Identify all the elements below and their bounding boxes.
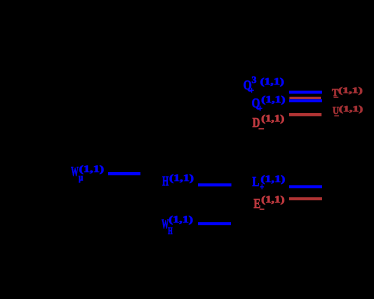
svg-text:(1,1): (1,1) (260, 76, 284, 86)
node Q+3(1,1) label (243, 75, 284, 95)
level line T- (red) (289, 97, 321, 99)
node E-(1,1) label (254, 194, 285, 213)
svg-text:(1,1): (1,1) (79, 164, 104, 174)
svg-text:(1,1): (1,1) (338, 86, 363, 95)
node WH(1,1) label (162, 215, 193, 237)
svg-text:+: + (258, 104, 263, 114)
level line Q+3 (blue) (289, 91, 322, 94)
node T-(1,1) label (332, 86, 363, 101)
svg-text:(1,1): (1,1) (339, 104, 363, 113)
svg-text:(1,1): (1,1) (261, 194, 284, 204)
node H(1,1) label (162, 173, 193, 190)
svg-text:+: + (249, 86, 254, 96)
level line E- (red) (289, 197, 322, 200)
svg-text:–: – (259, 204, 264, 214)
svg-text:(1,1): (1,1) (261, 114, 284, 124)
level line H (blue) (198, 183, 231, 186)
svg-text:H: H (168, 226, 173, 236)
node D-(1,1) label (252, 114, 284, 133)
svg-text:(1,1): (1,1) (169, 173, 193, 183)
svg-text:W: W (71, 165, 79, 180)
level line L+ (blue) (289, 185, 322, 188)
level line D-/U- (red) (289, 113, 322, 116)
svg-text:–: – (258, 123, 264, 133)
svg-text:L: L (252, 175, 259, 190)
level line Wmu (blue) (108, 172, 140, 175)
level line Q+ (blue) (289, 99, 322, 102)
svg-text:(1,1): (1,1) (261, 95, 285, 105)
level line WH (blue) (198, 222, 231, 225)
svg-text:3: 3 (252, 75, 257, 85)
node Wmu(1,1) label (71, 164, 104, 182)
svg-text:(1,1): (1,1) (261, 174, 286, 184)
node U-(1,1) label (333, 104, 364, 119)
node L+(1,1) label (252, 174, 285, 192)
svg-text:(1,1): (1,1) (169, 215, 193, 225)
node Q+(1,1) label (252, 95, 286, 114)
svg-text:H: H (162, 175, 168, 190)
